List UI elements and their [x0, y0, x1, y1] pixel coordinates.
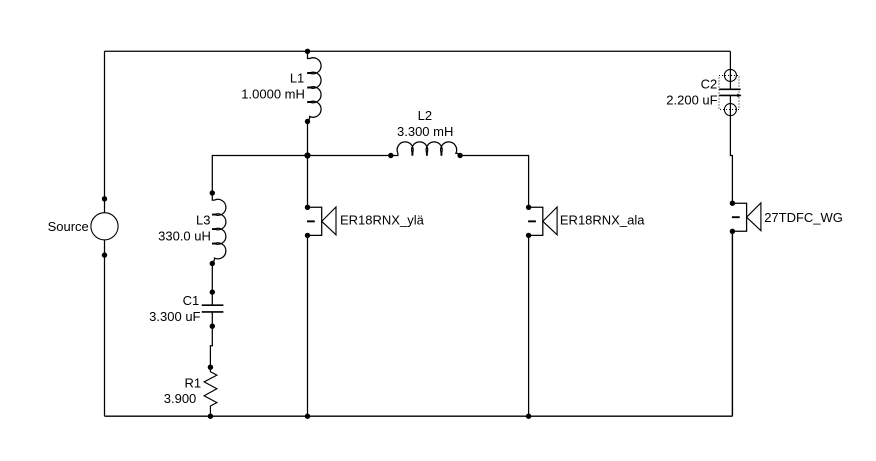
wire (woofer 2 to bottom bus)	[528, 235, 530, 416]
wire left vertical (source to bottom bus)	[104, 255, 106, 416]
node woofer2 bottom terminal	[526, 233, 531, 238]
node C1 bottom terminal	[210, 324, 215, 329]
inductor L2 coil (horizontal)	[391, 142, 461, 156]
wire mid horizontal (left branch)	[212, 156, 307, 194]
node C1 top terminal	[210, 289, 215, 294]
capacitor C2 terminal handle bottom	[724, 104, 736, 116]
capacitor C2 selection arrow	[737, 94, 741, 98]
node R1 bottom / bus	[208, 414, 213, 419]
node source top terminal	[102, 196, 107, 201]
node tweeter top terminal	[730, 201, 735, 206]
svg-text:27TDFC_WG: 27TDFC_WG	[764, 210, 843, 225]
inductor L1 coil	[307, 51, 321, 121]
node mid junction	[304, 152, 310, 158]
wire top bus	[105, 50, 731, 52]
source V1 Source circle	[91, 199, 118, 255]
svg-text:C2: C2	[701, 77, 718, 92]
node source bottom terminal	[102, 252, 107, 257]
svg-text:1.0000 mH: 1.0000 mH	[241, 86, 305, 101]
svg-text:3.900: 3.900	[164, 391, 197, 406]
svg-text:Source: Source	[48, 219, 89, 234]
svg-text:ER18RNX_ala: ER18RNX_ala	[560, 213, 645, 228]
capacitor C1	[202, 292, 224, 326]
capacitor C2 plates	[719, 89, 740, 95]
node woofer1 bottom terminal	[305, 233, 310, 238]
svg-text:C1: C1	[183, 293, 200, 308]
svg-text:2.200 uF: 2.200 uF	[666, 93, 717, 108]
node top bus / L1	[305, 49, 310, 54]
wire (L3 to C1)	[211, 264, 213, 293]
svg-text:L1: L1	[290, 70, 304, 85]
node L1 bottom terminal	[305, 119, 310, 124]
wire (mid junction down to woofer 1)	[307, 156, 309, 208]
svg-text:L3: L3	[196, 212, 210, 227]
node L3 bottom terminal	[210, 261, 215, 266]
wire (woofer 1 to bottom bus)	[307, 235, 309, 416]
node woofer1 top terminal	[305, 205, 310, 210]
wire mid horizontal (to L2)	[308, 155, 391, 157]
inductor L3 coil	[212, 193, 226, 264]
resistor R1 zigzag	[204, 367, 217, 416]
wire C2 top lead from bus	[729, 51, 731, 89]
node L3 top terminal	[210, 190, 215, 195]
wire left vertical (top bus to source)	[104, 51, 106, 199]
wire right vertical (bottom bus to tweeter)	[731, 231, 733, 416]
svg-text:L2: L2	[418, 108, 432, 123]
speaker U3 27TDFC_WG tweeter	[732, 203, 761, 231]
wire (C1 to R1, with jog)	[210, 326, 212, 367]
node tweeter bottom terminal	[730, 229, 735, 234]
node L2 left terminal	[388, 153, 393, 158]
svg-text:3.300 uF: 3.300 uF	[149, 309, 200, 324]
capacitor C2 selection box	[719, 75, 739, 109]
speaker U2 ER18RNX_ala	[528, 207, 557, 235]
capacitor C2 terminal handle top	[724, 69, 736, 81]
svg-text:R1: R1	[184, 376, 201, 391]
speaker U1 ER18RNX_ylä	[307, 207, 336, 235]
svg-text:ER18RNX_ylä: ER18RNX_ylä	[340, 213, 425, 228]
wire bottom bus	[105, 415, 733, 417]
wire right vertical (tweeter to C2, with jog)	[730, 95, 732, 203]
wire (L1 to mid junction)	[307, 122, 309, 156]
node L2 right terminal	[457, 153, 462, 158]
node woofer2 top terminal	[526, 205, 531, 210]
node woofer2 / bottom bus	[526, 414, 531, 419]
svg-text:3.300 mH: 3.300 mH	[397, 124, 453, 139]
svg-text:330.0 uH: 330.0 uH	[158, 228, 211, 243]
node woofer1 / bottom bus	[305, 414, 310, 419]
wire (L2 to woofer 2 branch)	[460, 156, 528, 208]
node R1 top terminal	[208, 365, 213, 370]
